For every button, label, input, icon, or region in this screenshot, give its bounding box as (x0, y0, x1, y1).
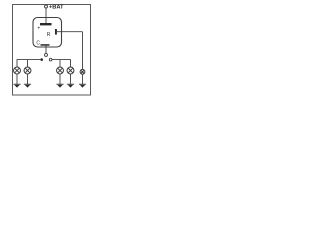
capacitor C plate (41, 44, 50, 46)
wire lamp L1 to ground (16, 74, 18, 84)
resistor R bar (55, 29, 57, 35)
wire lamp L3 to ground (59, 74, 61, 84)
lamp L4 (67, 67, 74, 74)
flasher unit box (33, 18, 62, 48)
lamp L3 (57, 67, 64, 74)
switch right contact (49, 58, 52, 61)
wire battery to flasher (45, 8, 47, 24)
wire R to pilot lamp (57, 31, 83, 33)
wire drop lamp L3 (59, 60, 61, 67)
battery terminal +BAT (45, 5, 48, 8)
wire drop lamp L2 (27, 60, 29, 67)
svg-text:C: C (36, 40, 40, 46)
svg-text:+: + (37, 25, 40, 31)
svg-text:R: R (47, 32, 51, 38)
wire lamp L4 to ground (70, 74, 72, 84)
svg-text:+BAT: +BAT (49, 5, 64, 11)
right bus wire (52, 59, 71, 61)
output terminal pole (45, 53, 48, 56)
ground L1 (13, 83, 20, 85)
left bus wire (17, 59, 40, 61)
wire pilot lamp to ground (82, 74, 84, 84)
ground L2 (24, 83, 31, 85)
wire drop lamp L1 (16, 59, 18, 67)
wire lamp L2 to ground (27, 74, 29, 84)
switch left contact (40, 58, 43, 61)
wire drop lamp L4 (70, 59, 72, 67)
wire C to output terminal (45, 46, 47, 54)
ground L5 (79, 83, 86, 85)
ground L4 (67, 83, 74, 85)
lamp L1 (14, 67, 21, 74)
pilot lamp L5 (80, 69, 85, 74)
contact bar (40, 23, 52, 25)
lamp L2 (24, 67, 31, 74)
ground L3 (56, 83, 63, 85)
